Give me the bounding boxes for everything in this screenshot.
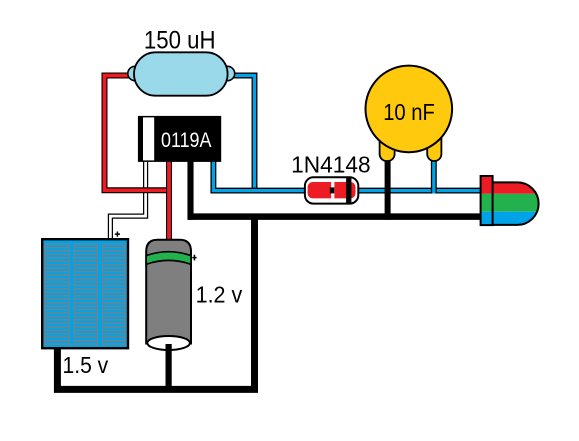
svg-text:150 uH: 150 uH	[144, 27, 216, 54]
svg-text:1N4148: 1N4148	[291, 151, 371, 177]
svg-text:10 nF: 10 nF	[383, 99, 435, 125]
svg-text:1.2 v: 1.2 v	[196, 281, 243, 307]
svg-text:0119A: 0119A	[161, 128, 212, 152]
svg-text:1.5 v: 1.5 v	[63, 352, 109, 378]
